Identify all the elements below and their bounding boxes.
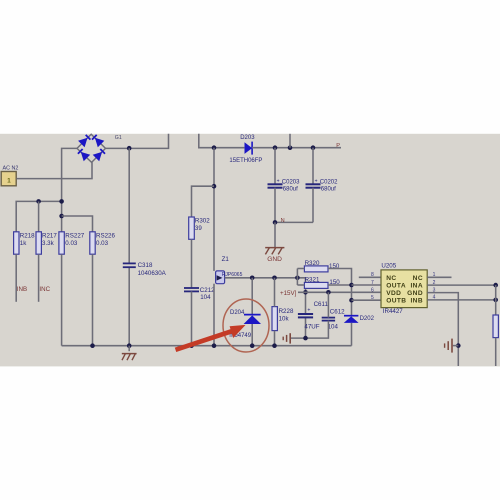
svg-text:R217: R217: [42, 233, 57, 240]
node junction at C318 column on top rail: [127, 146, 132, 151]
bridge diode top-right: [92, 135, 104, 147]
svg-text:+: +: [307, 308, 310, 314]
wire C0202 bottom lead: [312, 188, 314, 223]
svg-text:47UF: 47UF: [304, 324, 319, 331]
diode D203: [245, 142, 253, 155]
resistor RS226: [90, 232, 95, 254]
svg-text:D203: D203: [240, 135, 255, 141]
svg-text:IR4427: IR4427: [383, 308, 404, 315]
wire R320 right lead to right column: [328, 269, 352, 316]
wire port to bridge bottom: [16, 162, 92, 178]
node junction R217 top: [36, 199, 41, 204]
resistor R228: [272, 307, 277, 331]
wire C611 bottom lead: [305, 317, 307, 338]
node junction D204 top: [250, 276, 255, 281]
svg-text:C0203: C0203: [282, 179, 300, 185]
svg-text:39: 39: [195, 225, 202, 232]
wire RS226 top lead: [62, 216, 93, 232]
svg-text:Z1: Z1: [222, 256, 230, 263]
wire C612 top lead: [327, 292, 329, 317]
port AC N2 box pin 1: [1, 172, 16, 186]
svg-text:3.3k: 3.3k: [42, 240, 55, 247]
wire C611 C612 ground mini rail: [291, 321, 328, 339]
capacitor C611: [298, 308, 313, 318]
resistor right edge: [493, 315, 498, 338]
svg-text:1k: 1k: [20, 240, 27, 247]
diode D202: [344, 316, 359, 323]
wire R321 right lead: [328, 284, 352, 286]
resistor RS227: [59, 232, 64, 254]
wire D204 bottom lead: [251, 324, 253, 346]
label C318 value: [138, 262, 167, 277]
resistor R218: [14, 232, 19, 254]
svg-text:GND: GND: [407, 290, 423, 297]
node junction rail RS226: [90, 343, 95, 348]
node junction right column pin5: [349, 298, 354, 303]
wire C318 column lower to bottom rail: [128, 268, 130, 346]
svg-text:C0202: C0202: [320, 179, 338, 185]
wire N to GND: [274, 222, 276, 247]
svg-text:RS226: RS226: [96, 233, 115, 240]
svg-text:R302: R302: [195, 217, 210, 224]
wire C318 column upper: [128, 148, 130, 263]
annotation red arrow: [176, 325, 246, 350]
wire C0203 top lead: [274, 148, 276, 184]
wire rail ground stub: [128, 346, 130, 352]
bridge diode bottom-right: [93, 149, 105, 161]
svg-text:15ETH06FP: 15ETH06FP: [229, 158, 262, 164]
wire R217 net stub INC: [38, 254, 40, 302]
wire R218 net stub INB: [15, 254, 17, 302]
wire bridge left corner to left column: [62, 148, 77, 231]
svg-text:N: N: [281, 218, 285, 224]
svg-text:D204: D204: [230, 310, 245, 316]
wire D202 bottom lead: [351, 323, 353, 346]
node junction right column pin7: [349, 283, 354, 288]
label R302 value: [195, 217, 210, 232]
ground small left of C611: [283, 333, 290, 343]
node junction C611 mini rail: [303, 336, 308, 341]
wire riser down to D203 rail: [199, 134, 245, 148]
wire bottom rail: [62, 345, 352, 347]
wire pin8 stub: [359, 276, 381, 278]
svg-text:INC: INC: [39, 286, 50, 293]
wire pin1 stub: [427, 276, 451, 278]
node junction R228 top: [272, 276, 277, 281]
label C0202 value: [315, 178, 339, 192]
ground right sideways symbol: [445, 339, 452, 353]
svg-text:INB: INB: [410, 298, 423, 305]
svg-text:C611: C611: [314, 301, 329, 308]
svg-text:R228: R228: [279, 308, 294, 315]
svg-text:0.03: 0.03: [65, 240, 78, 247]
wire bridge right corner to riser: [106, 134, 169, 149]
svg-text:1040630A: 1040630A: [138, 270, 167, 277]
wire R302 tap: [192, 186, 215, 217]
svg-text:0.03: 0.03: [96, 240, 109, 247]
wire R302 bottom to C212: [191, 239, 193, 287]
diode D204: [244, 315, 261, 324]
wire +15V rail to IC pin6: [298, 291, 381, 293]
wire main down to +15V rail and C611: [305, 278, 307, 314]
node junction pin3 ground tap: [456, 343, 461, 348]
label C0203 value: [277, 178, 301, 192]
capacitor C0203: [268, 184, 283, 187]
capacitor C0202: [306, 184, 321, 187]
resistor R217: [36, 232, 41, 254]
ground GND symbol: [265, 248, 284, 255]
svg-text:AC N2: AC N2: [3, 165, 19, 171]
svg-text:OUTA: OUTA: [386, 283, 406, 290]
svg-text:GND: GND: [267, 256, 282, 263]
wire R320 left lead: [297, 268, 304, 270]
wire pin3 GND run: [427, 293, 458, 366]
resistor R320: [304, 266, 328, 272]
node junction rail MOSFET: [212, 343, 217, 348]
node junction C612 top: [326, 290, 331, 295]
node junction left column y216: [59, 214, 64, 219]
wire ground tap stub: [453, 345, 459, 347]
svg-text:U205: U205: [381, 262, 396, 269]
svg-text:5: 5: [371, 295, 374, 301]
svg-text:INB: INB: [17, 286, 27, 293]
wire mid column top segment: [213, 148, 215, 271]
svg-text:+: +: [277, 178, 280, 184]
ground bottom rail symbol: [122, 354, 137, 361]
svg-text:680uf: 680uf: [321, 186, 336, 192]
wire C0202 top lead: [312, 148, 314, 184]
label R228 value: [279, 308, 294, 322]
capacitor C318: [123, 263, 136, 267]
annotation red ellipse around D204: [223, 299, 269, 352]
node junction pin4 right: [493, 298, 498, 303]
svg-text:R218: R218: [20, 233, 35, 240]
node junction pin2 right: [493, 283, 498, 288]
wire left bank top rail: [16, 201, 61, 231]
wire N rail: [275, 221, 313, 223]
svg-text:6: 6: [371, 287, 374, 293]
wire MOSFET drain-out main run: [225, 277, 306, 279]
wire MOSFET source to rail: [213, 284, 215, 346]
label RS227 value: [65, 233, 84, 248]
svg-text:104: 104: [328, 324, 339, 331]
op-amp U205 IR4427 body: [381, 270, 427, 308]
svg-text:P: P: [336, 143, 340, 149]
svg-text:C212: C212: [200, 287, 215, 294]
wire C0203 bottom to N rail: [274, 188, 276, 223]
node junction R302 tap: [212, 184, 217, 189]
node junction riser x290: [288, 145, 293, 150]
node junction rail D204: [250, 343, 255, 348]
wire riser x290: [289, 134, 291, 148]
wire R321 left lead: [297, 284, 304, 286]
node junction C0202 top: [311, 145, 316, 150]
wire RS227 bottom lead: [61, 254, 63, 346]
node junction N rail: [273, 220, 278, 225]
node junction R320 R321 column: [295, 276, 300, 281]
wire RS226 bottom lead: [92, 254, 94, 346]
svg-text:C612: C612: [330, 309, 345, 316]
wire C212 bottom to rail: [191, 291, 193, 345]
svg-text:INA: INA: [410, 283, 423, 290]
node junction rail C318: [127, 343, 132, 348]
svg-text:RS227: RS227: [65, 233, 84, 240]
wire R228 top lead: [274, 278, 276, 307]
wire D204 top lead: [251, 278, 253, 315]
bridge diode bottom-left: [78, 149, 90, 161]
label R217 value: [42, 233, 57, 248]
svg-text:D202: D202: [360, 316, 375, 322]
node junction left column y201: [59, 199, 64, 204]
transistor Q RJP6065: [216, 271, 225, 284]
wire R228 bottom lead: [274, 331, 276, 346]
svg-text:10k: 10k: [279, 315, 290, 322]
svg-text:680uf: 680uf: [283, 186, 298, 192]
svg-text:NC: NC: [413, 275, 423, 282]
svg-text:G1: G1: [115, 135, 122, 141]
wire right resistor bottom lead: [495, 338, 497, 366]
capacitor C612: [322, 318, 335, 321]
label C212 value: [200, 287, 215, 301]
node junction mid column top: [212, 145, 217, 150]
resistor R321: [304, 282, 328, 288]
svg-text:+15V]: +15V]: [280, 290, 297, 297]
svg-text:C318: C318: [138, 262, 153, 269]
bridge diode top-left: [78, 135, 90, 147]
bridge rectifier G1 diamond outline: [77, 134, 106, 162]
wire right column: [495, 285, 497, 315]
svg-text:+: +: [315, 178, 318, 184]
svg-text:8: 8: [371, 272, 374, 278]
schematic gray background band: [0, 134, 500, 367]
svg-text:NC: NC: [386, 275, 396, 282]
node junction rail R228: [272, 343, 277, 348]
wire pin4 to right resistor: [427, 299, 496, 301]
resistor R302: [189, 217, 195, 239]
svg-text:OUTB: OUTB: [386, 298, 406, 305]
wire R320 R321 left column: [296, 269, 298, 286]
svg-text:104: 104: [200, 294, 211, 301]
wire R217 top lead: [38, 201, 40, 231]
svg-text:1: 1: [7, 177, 11, 184]
wire P rail right of D203: [252, 147, 341, 149]
capacitor C212: [184, 288, 199, 291]
svg-text:R321: R321: [305, 277, 320, 284]
node junction +15V at C611: [303, 290, 308, 295]
svg-text:VDD: VDD: [386, 290, 401, 297]
node junction C0203 top: [273, 145, 278, 150]
wire pin2 to right resistor: [427, 284, 496, 286]
label RS226 value: [96, 233, 115, 248]
wire pin7: [352, 284, 382, 286]
wire pin5: [352, 299, 382, 301]
node junction rail C212: [189, 343, 194, 348]
svg-text:7: 7: [371, 280, 374, 286]
label R218 value: [20, 233, 35, 248]
svg-text:R320: R320: [305, 260, 320, 267]
